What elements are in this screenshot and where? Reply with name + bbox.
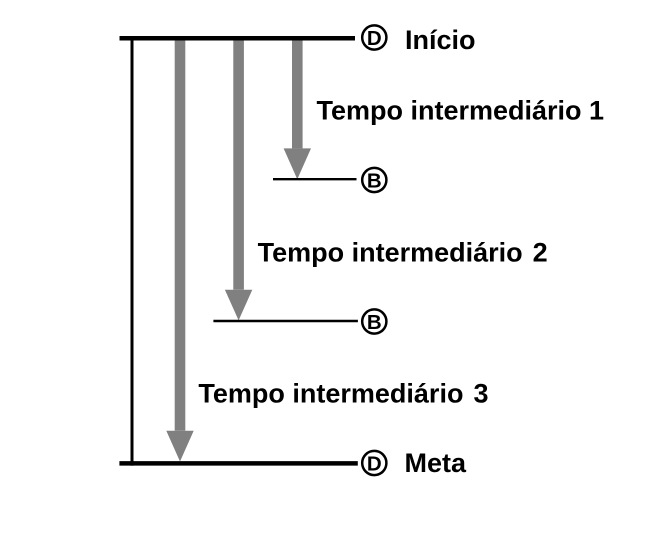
- svg-text:Meta: Meta: [405, 448, 467, 478]
- svg-text:B: B: [367, 311, 382, 334]
- svg-text:Tempo intermediário 2: Tempo intermediário 2: [258, 238, 548, 268]
- svg-text:Tempo intermediário 3: Tempo intermediário 3: [198, 379, 488, 409]
- svg-text:B: B: [367, 170, 382, 193]
- svg-text:D: D: [367, 453, 382, 476]
- svg-text:Tempo intermediário 1: Tempo intermediário 1: [317, 96, 605, 126]
- svg-text:D: D: [367, 27, 382, 50]
- svg-text:Início: Início: [405, 25, 476, 55]
